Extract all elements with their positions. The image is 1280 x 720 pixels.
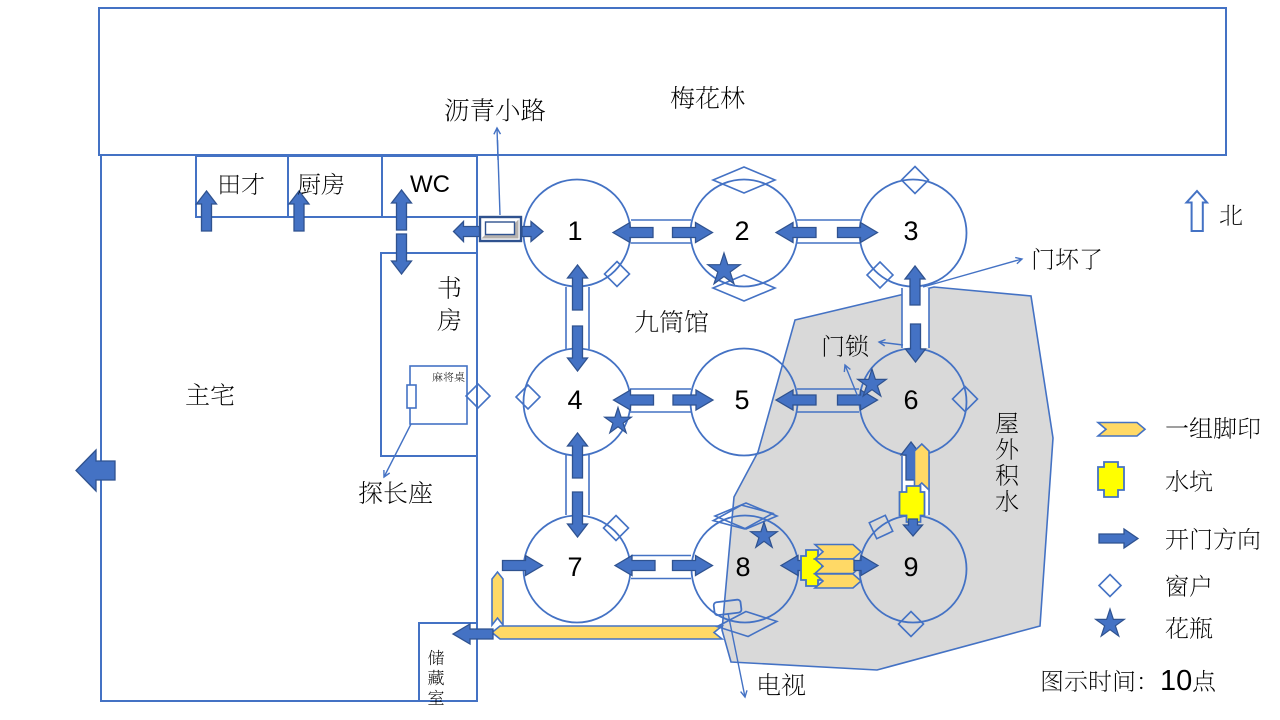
- footprints vertical near circle7: [492, 572, 503, 625]
- svg-text:3: 3: [903, 216, 918, 246]
- entrance door frame: [480, 217, 521, 241]
- door arrow into circle1 from entrance: [522, 222, 543, 242]
- window circle3 bottom-left: [867, 262, 893, 288]
- room door arrows 田才 厨房 WC: [197, 191, 217, 231]
- TV rect: [713, 599, 741, 615]
- vase star circle2: [708, 253, 740, 284]
- pointer TV 电视: [728, 613, 745, 697]
- label 主宅: [186, 383, 209, 405]
- legend label 花瓶: [1166, 617, 1188, 639]
- label 电视: [759, 673, 780, 695]
- svg-text:WC: WC: [410, 171, 450, 198]
- storage 储藏室: [419, 623, 477, 701]
- svg-text:2: 2: [734, 216, 749, 246]
- svg-text:4: 4: [567, 385, 582, 415]
- label 北: [1220, 205, 1242, 226]
- vase star circle8: [751, 522, 778, 547]
- vase star circle4: [605, 408, 632, 433]
- corridor 6-9 door arrow up into 6: [901, 442, 921, 480]
- label 储藏室 vertical: [428, 650, 444, 665]
- eye window circle2 top: [713, 167, 775, 193]
- window circle1 bottom-right: [605, 262, 630, 287]
- door arrow WC to study: [392, 234, 412, 274]
- label 梅花林: [671, 86, 695, 109]
- window on study right wall: [466, 384, 490, 408]
- legend label 水坑: [1166, 470, 1188, 492]
- puddle between 8 and 9: [801, 550, 822, 586]
- eye window circle2 bottom: [713, 275, 775, 301]
- eye window circle8 bottom: [716, 609, 778, 639]
- circle 6: [860, 349, 967, 456]
- footprints long horizontal to storage: [492, 626, 722, 639]
- corridor 8-9 door arrow into 9: [854, 556, 878, 576]
- window circle7 top-right: [604, 516, 629, 541]
- outdoor water gray polygon 屋外积水: [722, 287, 1053, 670]
- pointer door broken 门坏了: [923, 259, 1022, 287]
- label 门坏了: [1034, 248, 1053, 270]
- label 门锁: [824, 335, 843, 357]
- corridor 7-8 door arrows: [615, 556, 655, 576]
- legend label 开门方向: [1166, 529, 1188, 550]
- eye window circle8 top + tilted: [715, 503, 777, 529]
- plum forest rect 梅花林: [99, 8, 1226, 155]
- circle 9: [860, 516, 967, 623]
- study 书房: [381, 253, 477, 456]
- main house 主宅 outline: [101, 155, 477, 701]
- pointer detective seat 探长座: [384, 424, 411, 477]
- corridor 1-4 door arrows: [568, 265, 588, 310]
- circle 8: [692, 516, 799, 623]
- label 书房: [438, 276, 460, 299]
- corridor 4-5 door arrows: [614, 390, 654, 410]
- legend window icon: [1099, 575, 1121, 597]
- mahjong table 麻将桌: [410, 366, 467, 424]
- legend vase icon: [1096, 609, 1125, 636]
- label 麻将桌: [433, 372, 443, 382]
- corridor 5-6 door arrows: [776, 390, 816, 410]
- circle 3: [860, 180, 967, 287]
- svg-text:8: 8: [735, 552, 750, 582]
- svg-text:7: 7: [567, 552, 582, 582]
- window circle9 top-left: [865, 511, 897, 543]
- room 厨房: [288, 156, 382, 217]
- door arrow into house from entrance: [454, 222, 480, 242]
- legend door arrow icon: [1099, 529, 1138, 548]
- window circle6 right: [953, 387, 978, 412]
- legend label 窗户: [1166, 575, 1188, 597]
- door arrow into storage: [453, 624, 493, 644]
- pointer to asphalt path 沥青小路: [498, 140, 501, 215]
- window circle3 top: [902, 167, 929, 194]
- window circle4 left: [516, 385, 540, 409]
- circle 4: [524, 349, 631, 456]
- label 探长座: [359, 481, 382, 504]
- corridors between circles: [631, 219, 691, 221]
- corridor 8-9 door arrow into 8: [781, 556, 805, 576]
- circle 7: [524, 516, 631, 623]
- north arrow: [1187, 191, 1208, 231]
- room WC: [382, 156, 477, 217]
- svg-text:6: 6: [903, 385, 918, 415]
- label 沥青小路: [445, 99, 468, 122]
- footprints between 8 and 9 (three chevrons): [815, 545, 861, 560]
- svg-text:10: 10: [1160, 665, 1192, 697]
- caption 图示时间：10点: [1043, 670, 1062, 691]
- room 田才: [196, 156, 288, 217]
- corridor 2-3 door arrows: [776, 223, 816, 243]
- label 厨房: [298, 173, 320, 194]
- svg-text:1: 1: [567, 216, 582, 246]
- puddle between 6 and 9: [900, 486, 925, 522]
- legend label 一组脚印: [1166, 425, 1188, 427]
- svg-text:9: 9: [903, 552, 918, 582]
- circle 1: [524, 180, 631, 287]
- label 田才: [220, 175, 239, 195]
- vase star circle6: [858, 369, 887, 396]
- label 屋外积水 vertical: [996, 413, 1018, 434]
- corridor 3-6 door arrows: [905, 266, 925, 305]
- circle 2: [691, 180, 798, 287]
- legend puddle icon: [1098, 462, 1124, 497]
- corridor 4-7 door arrows: [568, 433, 588, 478]
- big exit arrow west wall: [76, 450, 115, 491]
- pointer door lock to corridor 3-6: [879, 342, 903, 345]
- corridor 1-2 door arrows: [613, 223, 653, 243]
- door arrow down into 9: [904, 519, 923, 536]
- pointer door lock to corridor 5-6: [845, 365, 858, 397]
- door arrow into circle7: [503, 556, 543, 576]
- label 九筒馆: [635, 310, 658, 333]
- legend footprint icon: [1098, 423, 1145, 437]
- svg-text:5: 5: [734, 385, 749, 415]
- window circle9 bottom: [899, 612, 924, 637]
- detective seat rect: [407, 385, 416, 408]
- footprints vertical between 6 and 9: [915, 444, 930, 490]
- circle 5: [691, 349, 798, 456]
